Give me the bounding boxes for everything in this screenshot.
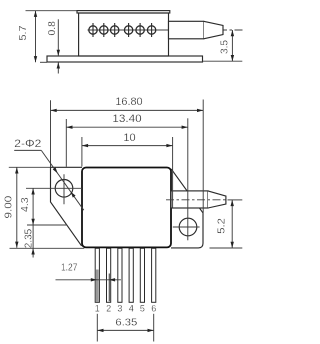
svg-text:10: 10	[123, 132, 135, 144]
right mounting flange	[171, 169, 203, 248]
svg-text:2-Φ2: 2-Φ2	[14, 138, 41, 150]
svg-text:1.27: 1.27	[61, 263, 78, 274]
left mounting flange	[51, 167, 83, 246]
dimension 1.27	[56, 279, 121, 281]
left hole centerlines	[26, 174, 82, 204]
front nozzle cone	[208, 191, 226, 208]
pin 2 extension line	[108, 274, 110, 302]
terminal screw 4	[124, 23, 132, 37]
pin 2	[107, 248, 111, 302]
front nozzle centerline	[166, 199, 227, 201]
terminal screw 5	[136, 23, 144, 37]
svg-text:5.7: 5.7	[17, 25, 29, 40]
pin 1	[95, 248, 99, 302]
pin 6	[152, 248, 156, 302]
svg-text:2: 2	[106, 304, 111, 314]
svg-text:4: 4	[129, 304, 134, 314]
dimension 3.5	[203, 30, 243, 61]
pin 4	[129, 248, 133, 302]
side view base plate	[47, 56, 203, 62]
svg-text:2.35: 2.35	[23, 229, 35, 248]
dimension 4.3 and 2.35 shared line	[27, 188, 67, 257]
terminal screw 6	[147, 23, 155, 37]
side view nozzle tube	[169, 21, 204, 39]
svg-text:0.8: 0.8	[46, 21, 58, 36]
terminal screw 3	[111, 23, 119, 37]
pin 1 grey extension fill	[96, 270, 99, 302]
terminal centerline	[88, 29, 169, 31]
dimension 6.35	[97, 314, 153, 342]
svg-text:16.80: 16.80	[115, 96, 142, 108]
svg-text:3.5: 3.5	[219, 40, 231, 54]
terminal screw 1	[89, 23, 97, 37]
svg-text:5: 5	[140, 304, 145, 314]
dimension 0.8	[57, 19, 59, 73]
svg-text:9.00: 9.00	[2, 196, 14, 219]
pin 5	[140, 248, 144, 302]
pin 3	[118, 248, 122, 302]
svg-text:13.40: 13.40	[112, 113, 141, 125]
left mounting hole	[55, 180, 73, 198]
side view nozzle cone	[204, 21, 223, 39]
svg-text:6: 6	[151, 304, 156, 314]
side view lid	[77, 11, 170, 13]
dimension 10	[82, 137, 173, 208]
nozzle centerline (side view)	[169, 29, 243, 31]
right mounting hole	[179, 218, 197, 236]
dimension 5.2	[210, 200, 243, 248]
right hole centerlines	[173, 226, 200, 228]
dimension 9.00	[9, 167, 85, 248]
front view body	[82, 168, 171, 248]
svg-text:4.3: 4.3	[19, 197, 31, 212]
svg-text:6.35: 6.35	[115, 316, 137, 328]
dimension 13.40	[66, 118, 188, 240]
front nozzle tube	[171, 191, 208, 208]
svg-text:1: 1	[95, 304, 100, 314]
terminal screw 2	[100, 23, 108, 37]
svg-text:3: 3	[117, 304, 122, 314]
side view body	[79, 13, 169, 56]
dimension 5.7	[26, 11, 78, 63]
dimension 16.80	[51, 100, 204, 213]
svg-text:5.2: 5.2	[215, 218, 227, 234]
